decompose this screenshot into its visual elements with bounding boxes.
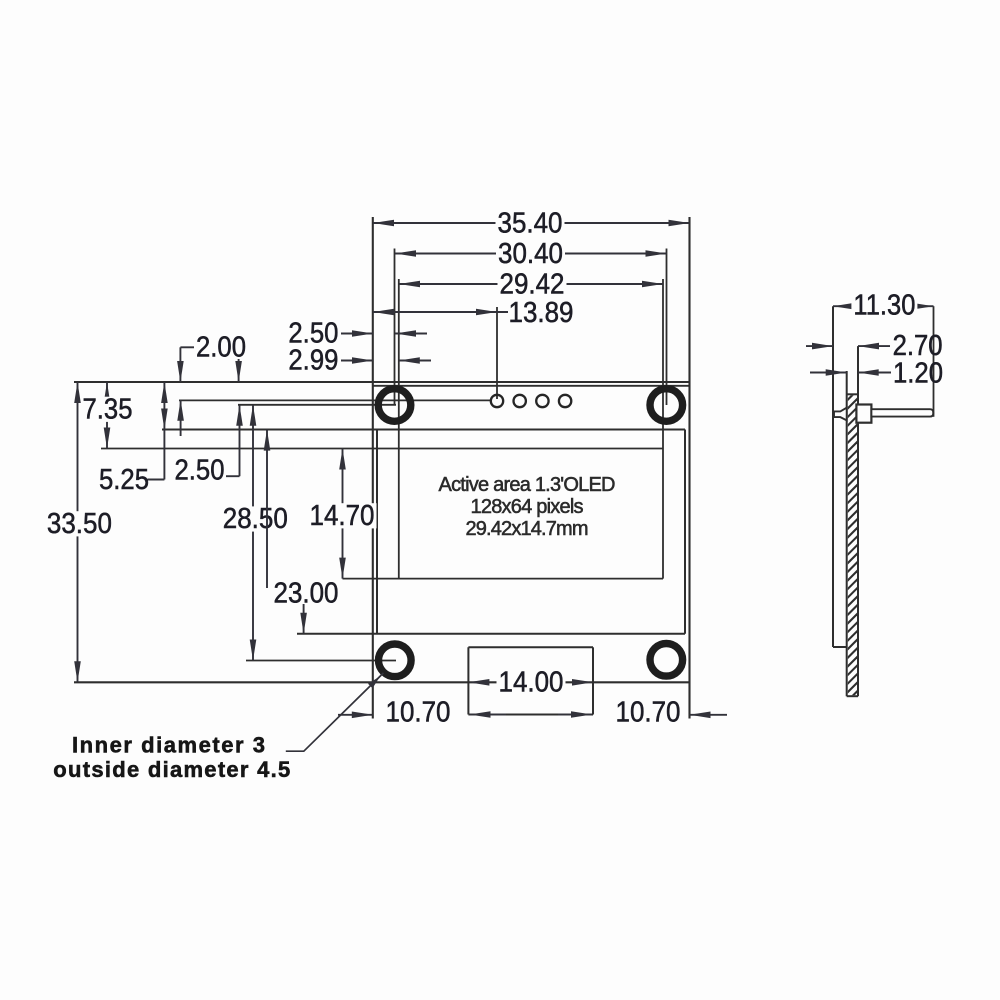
svg-text:7.35: 7.35	[83, 393, 133, 425]
svg-text:23.00: 23.00	[274, 578, 339, 610]
svg-text:13.89: 13.89	[509, 297, 574, 329]
svg-text:2.99: 2.99	[288, 345, 338, 377]
svg-text:10.70: 10.70	[616, 697, 681, 729]
svg-text:128x64 pixels: 128x64 pixels	[471, 496, 584, 518]
svg-text:29.42: 29.42	[500, 269, 565, 301]
svg-text:10.70: 10.70	[386, 697, 451, 729]
svg-text:outside diameter 4.5: outside diameter 4.5	[53, 757, 290, 782]
svg-text:Inner diameter 3: Inner diameter 3	[72, 733, 265, 758]
svg-text:29.42x14.7mm: 29.42x14.7mm	[466, 518, 589, 540]
svg-text:33.50: 33.50	[47, 508, 112, 540]
svg-text:2.00: 2.00	[196, 331, 246, 363]
svg-text:35.40: 35.40	[498, 208, 563, 240]
svg-text:11.30: 11.30	[853, 289, 915, 321]
svg-text:28.50: 28.50	[223, 503, 288, 535]
svg-text:Active area 1.3'OLED: Active area 1.3'OLED	[439, 474, 616, 496]
svg-text:2.50: 2.50	[175, 455, 225, 487]
svg-text:14.70: 14.70	[310, 500, 375, 532]
svg-text:30.40: 30.40	[498, 238, 563, 270]
svg-text:5.25: 5.25	[99, 464, 149, 496]
svg-text:1.20: 1.20	[893, 357, 943, 389]
svg-text:14.00: 14.00	[499, 667, 564, 699]
